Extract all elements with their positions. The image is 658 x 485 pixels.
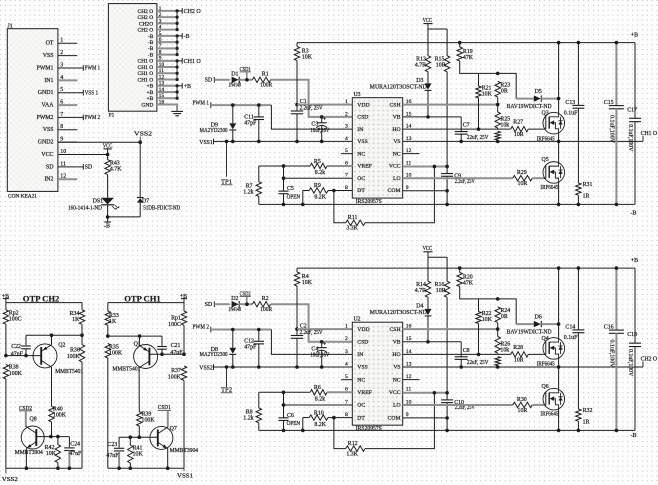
junction C23 bottom: [117, 466, 121, 470]
svg-text:7: 7: [159, 43, 162, 49]
svg-text:8.2K: 8.2K: [314, 195, 326, 201]
svg-text:CH1 O: CH1 O: [138, 77, 154, 83]
svg-text:+B: +B: [147, 96, 154, 102]
resistor R22 10K: [476, 299, 493, 354]
resistor R7 1.2k: [243, 166, 261, 204]
svg-text:R19: R19: [463, 49, 473, 55]
svg-text:CSH: CSH: [390, 102, 401, 108]
svg-text:BAV19WDICT-ND: BAV19WDICT-ND: [507, 329, 553, 335]
connector P1 pin 1 CH2 O: [138, 6, 178, 15]
wire LO row: [403, 177, 513, 179]
net label CSD1 (OTP): [158, 405, 171, 427]
svg-text:10R: 10R: [436, 63, 446, 69]
svg-text:VREF: VREF: [357, 390, 372, 396]
junction R41 bottom: [129, 466, 133, 470]
resistor gate pulldown: [495, 131, 500, 141]
svg-text:CH2 O: CH2 O: [184, 9, 202, 15]
svg-text:P1: P1: [109, 113, 115, 119]
svg-text:R29: R29: [517, 170, 527, 176]
junction COM/C9: [445, 416, 449, 420]
resistor R6 8.2k: [310, 385, 327, 402]
junction C1/VSS: [295, 365, 299, 369]
svg-text:100C: 100C: [9, 317, 22, 323]
capacitor C22 47nF: [11, 335, 31, 357]
wire P1 bus +B: [176, 84, 183, 100]
testpoint TP1: [221, 140, 232, 186]
svg-text:OPEN: OPEN: [287, 421, 301, 427]
svg-text:R31: R31: [583, 182, 593, 188]
svg-text:-B: -B: [148, 52, 154, 58]
wire VCC stub rail: [428, 28, 447, 30]
wire Q3 source to VS: [558, 133, 560, 141]
wire Q5 source to -B rail: [558, 183, 560, 205]
svg-text:Q6: Q6: [542, 384, 549, 390]
pin 1 VDD: [345, 99, 370, 108]
svg-text:Q4: Q4: [542, 336, 549, 342]
connector P1 pin 4 CH2 O: [138, 25, 178, 34]
net label SD at J1 pin 11: [77, 164, 93, 171]
power +B OTP CH1: [180, 294, 187, 303]
junction D3/VB: [426, 340, 430, 344]
junction R21/HO: [477, 127, 481, 131]
svg-text:8.2K: 8.2K: [314, 422, 326, 428]
svg-text:100K: 100K: [9, 371, 23, 377]
svg-text:10k: 10k: [500, 122, 509, 128]
junction R34/R36: [80, 333, 84, 337]
junction C15/-B: [615, 203, 619, 207]
svg-text:R20: R20: [463, 274, 473, 280]
svg-text:12: 12: [60, 174, 66, 180]
svg-text:IN1: IN1: [44, 78, 53, 84]
pin 5 NC stub: [341, 153, 352, 155]
svg-text:VDD: VDD: [357, 327, 369, 333]
svg-text:47nF: 47nF: [69, 451, 82, 457]
svg-text:D6: D6: [535, 315, 542, 321]
svg-text:PWM 1: PWM 1: [193, 100, 210, 106]
pin 9 COM: [388, 185, 409, 194]
junction Q5 source/-B: [557, 429, 561, 433]
svg-text:IRS20957S: IRS20957S: [356, 426, 382, 432]
junction Q8 emitter: [25, 466, 29, 470]
wire OC row: [284, 166, 353, 178]
svg-text:R11: R11: [348, 215, 358, 221]
wire VDD row: [297, 328, 352, 330]
resistor R21 10K: [476, 73, 493, 129]
pin 6 VREF: [345, 387, 372, 396]
svg-text:10R: 10R: [514, 357, 524, 363]
net label PWM 2: [193, 325, 211, 333]
pin 10 LO: [393, 399, 412, 408]
junction R23 top: [496, 297, 500, 301]
wire VS row: [403, 366, 643, 368]
junction C15/+B: [615, 41, 619, 45]
svg-text:PWM 1: PWM 1: [85, 66, 101, 72]
pin 14 HO: [392, 124, 411, 133]
svg-text:1: 1: [159, 6, 162, 12]
connector P1 pin 3 CH2O: [139, 18, 177, 27]
svg-text:0.1uF,100V: 0.1uF,100V: [608, 115, 614, 144]
svg-text:VSS2: VSS2: [199, 366, 213, 372]
resistor R26 10k: [495, 329, 510, 354]
pin 4 VSS: [345, 136, 368, 145]
svg-text:1N4148: 1N4148: [228, 83, 241, 89]
svg-text:CSD: CSD: [357, 339, 368, 345]
svg-text:IRF6645: IRF6645: [540, 412, 558, 418]
junction D5/drain: [557, 322, 561, 326]
svg-text:R1: R1: [262, 72, 269, 78]
svg-text:C3: C3: [311, 122, 318, 128]
svg-text:R6: R6: [314, 385, 321, 391]
pin 11 VCC: [389, 387, 412, 396]
svg-text:4: 4: [159, 25, 162, 31]
svg-text:C5: C5: [287, 186, 294, 192]
svg-text:10R: 10R: [518, 181, 528, 187]
connector J1 pin 3 PWM1: [36, 62, 77, 71]
pin 9 COM: [388, 412, 409, 421]
svg-text:10: 10: [60, 149, 66, 155]
wire CSH row: [403, 328, 498, 330]
wire HO row: [403, 128, 511, 130]
pin 12 NC stub: [403, 379, 420, 381]
svg-text:C7: C7: [463, 123, 470, 129]
connector J1: [7, 29, 58, 192]
svg-text:15: 15: [159, 93, 165, 99]
svg-text:PWM 2: PWM 2: [85, 115, 101, 121]
junction R19/+B: [458, 41, 462, 45]
connector J1 pin 4 IN1: [44, 75, 77, 84]
capacitor C3 10uF 16V: [310, 117, 330, 142]
svg-text:OTP CH1: OTP CH1: [124, 293, 161, 303]
thermistor Rp1 100C: [168, 303, 187, 355]
svg-text:BAV19WDICT-ND: BAV19WDICT-ND: [507, 104, 553, 110]
wire VB row: [403, 341, 462, 343]
svg-text:OC: OC: [357, 403, 365, 409]
svg-text:1.2k: 1.2k: [243, 416, 253, 422]
pin 8 DT: [345, 185, 365, 194]
svg-text:C15: C15: [604, 100, 614, 106]
svg-text:100K: 100K: [109, 351, 123, 357]
svg-text:-B: -B: [184, 34, 190, 40]
wire SD: [214, 79, 230, 81]
pin 6 VREF: [345, 160, 372, 169]
wire drain to +B: [558, 268, 560, 338]
svg-text:4.7R: 4.7R: [415, 63, 426, 69]
svg-text:Rp1: Rp1: [171, 316, 181, 322]
capacitor C2 2.2uF 25V: [291, 324, 323, 367]
capacitor C21 47nF: [157, 336, 183, 356]
svg-text:47pF: 47pF: [244, 120, 257, 126]
capacitor C9 2.2uF 25V: [441, 166, 475, 191]
transistor Q3 IRF6645 (high side): [537, 111, 565, 143]
svg-text:4: 4: [60, 75, 63, 81]
svg-text:-B: -B: [148, 40, 154, 46]
power +B OTP CH2: [2, 294, 9, 303]
svg-text:10K: 10K: [302, 55, 313, 61]
pin 8 DT: [345, 412, 365, 421]
wire P1 bus -B: [176, 34, 183, 56]
power -B rail: [259, 204, 637, 216]
wire Q5 drain to VS: [558, 141, 560, 162]
resistor R41 10K: [128, 437, 144, 468]
resistor R25 10k: [495, 105, 510, 130]
wire COM row: [403, 417, 447, 419]
pin 15 VB: [393, 111, 412, 120]
net label CH2 O: [182, 8, 201, 15]
connector J1 pin 12 IN2: [44, 174, 77, 183]
svg-text:Q5: Q5: [542, 157, 549, 163]
resistor R27 10R: [511, 120, 544, 138]
wire CSH row: [403, 104, 498, 106]
svg-text:VSS 1: VSS 1: [85, 90, 99, 96]
junction OC/C5: [282, 176, 286, 180]
resistor R35 100K: [105, 344, 123, 469]
resistor R2 100R: [252, 296, 272, 313]
svg-text:1.2k: 1.2k: [243, 189, 253, 195]
svg-text:PWM2: PWM2: [36, 115, 53, 121]
connector P1: [108, 4, 156, 112]
diode D2 1N4148: [228, 296, 241, 313]
svg-text:10uF,16V: 10uF,16V: [310, 128, 330, 134]
svg-text:Rp2: Rp2: [9, 310, 19, 316]
svg-text:IN: IN: [357, 352, 363, 358]
svg-text:R10: R10: [314, 410, 324, 416]
svg-text:C22: C22: [11, 344, 21, 350]
wire PWM to IN pin: [211, 105, 352, 129]
op-amp U2 IRS20957S: [352, 317, 402, 432]
svg-text:LO: LO: [393, 403, 401, 409]
resistor R29 10R: [513, 170, 544, 187]
svg-text:Q7: Q7: [170, 426, 177, 432]
svg-text:5: 5: [159, 31, 162, 37]
resistor R30 10R: [513, 397, 544, 414]
power +B rail: [297, 258, 638, 268]
svg-text:10uF,16V: 10uF,16V: [310, 353, 330, 359]
junction CSD1: [245, 78, 249, 82]
svg-text:1K: 1K: [109, 319, 117, 325]
svg-text:-B: -B: [631, 211, 637, 217]
svg-text:22uF, 25V: 22uF, 25V: [467, 360, 489, 366]
net label CSD2 (OTP): [19, 406, 32, 427]
wire Q1 emitter row: [108, 335, 162, 337]
svg-text:CSH: CSH: [390, 327, 401, 333]
resistor R33 1K: [105, 303, 119, 337]
pin 16 CSH: [390, 324, 412, 333]
svg-text:1R: 1R: [583, 194, 590, 200]
junction Q7 emitter: [166, 466, 170, 470]
pin 3 IN: [345, 124, 363, 133]
svg-text:Q2: Q2: [58, 343, 65, 349]
junction VCC/R11 return: [433, 391, 437, 395]
transistor Q1 MMBT5401: [112, 336, 157, 372]
svg-text:VS: VS: [393, 365, 400, 371]
net label VSS1: [199, 139, 213, 146]
junction C13/+B: [577, 266, 581, 270]
connector J1 pin 10 VCC: [41, 149, 77, 158]
wire VB row: [403, 116, 462, 118]
svg-text:11: 11: [60, 161, 66, 167]
resistor R31 1R: [576, 182, 593, 204]
svg-text:D1: D1: [231, 72, 238, 78]
svg-text:3: 3: [159, 18, 162, 24]
capacitor C5 OPEN: [279, 178, 301, 204]
pin 7 OC: [345, 173, 365, 182]
wire Q5 source to -B rail: [558, 409, 560, 430]
svg-text:13: 13: [159, 81, 165, 87]
junction VDD: [295, 327, 299, 331]
svg-text:100K: 100K: [142, 418, 156, 424]
connector J1 pin 1 OT: [46, 38, 78, 47]
svg-text:10K: 10K: [302, 280, 313, 286]
svg-text:VSS: VSS: [357, 365, 367, 371]
svg-text:D7: D7: [142, 198, 149, 204]
svg-text:14: 14: [159, 87, 165, 93]
diode D3 MURA120T3OSCT-ND: [370, 72, 432, 117]
svg-text:R38: R38: [9, 365, 19, 371]
svg-text:2: 2: [159, 12, 162, 18]
junction C9/-B rail: [445, 429, 449, 433]
connector P1 pin 12 CH1 O: [138, 74, 178, 83]
capacitor C12 47pF: [244, 330, 264, 368]
connector P1 pin 6 -B: [148, 37, 177, 46]
svg-text:Q3: Q3: [542, 111, 549, 117]
svg-text:VB: VB: [393, 339, 401, 345]
svg-text:8.2k: 8.2k: [315, 397, 325, 403]
junction VREF/C5 branch: [282, 164, 286, 168]
junction C3/VSS: [320, 140, 324, 144]
svg-text:100K: 100K: [67, 354, 81, 360]
resistor R43 4.7K: [105, 155, 122, 198]
svg-text:MURA120T3OSCT-ND: MURA120T3OSCT-ND: [370, 85, 428, 91]
svg-text:VSS: VSS: [43, 127, 54, 133]
ground: [171, 111, 183, 115]
svg-text:R2: R2: [262, 296, 269, 302]
wire R5 to VREF pin: [327, 165, 352, 167]
svg-text:U3: U3: [354, 92, 361, 98]
svg-text:-B: -B: [148, 46, 154, 52]
net label PWM 1: [193, 100, 211, 108]
svg-text:1R: 1R: [583, 420, 590, 426]
svg-text:-B: -B: [631, 433, 637, 439]
connector P1 pin 13 +B: [147, 81, 178, 90]
resistor R13 4.7R: [415, 29, 431, 72]
wire OTP CH2 top rail: [6, 302, 82, 304]
svg-text:NC: NC: [357, 151, 365, 157]
junction C15/-B: [615, 429, 619, 433]
resistor R14 4.7R: [415, 257, 431, 297]
junction CSH/R23: [496, 103, 500, 107]
pin 2 CSD: [345, 336, 368, 345]
svg-text:MA2YD2300: MA2YD2300: [200, 128, 228, 134]
capacitor C7 22uF 25V: [455, 117, 489, 142]
connector J1 pin 7 PWM2: [36, 112, 77, 121]
transistor Q5 IRF6645 (low side): [540, 157, 564, 191]
power VCC: [423, 246, 433, 257]
resistor R40 100K: [49, 367, 67, 437]
svg-text:R16: R16: [435, 282, 445, 288]
junction Q5 source/-B: [557, 203, 561, 207]
net label PWM 2 at J1 pin 7: [77, 115, 100, 122]
resistor R36 100K: [67, 335, 85, 468]
wire VSS row: [214, 366, 353, 368]
svg-text:C21: C21: [171, 343, 181, 349]
svg-text:1: 1: [345, 324, 348, 330]
diode D7 51DB-FDICT-ND: [137, 142, 181, 217]
power VCC: [423, 18, 433, 29]
svg-text:47nF: 47nF: [106, 453, 119, 459]
junction C input cap: [257, 328, 261, 332]
net label CSD2: [240, 291, 251, 304]
junction R42: [56, 435, 60, 439]
svg-text:10R: 10R: [436, 288, 446, 294]
junction VCC/C9: [445, 165, 449, 169]
svg-text:CH2 O: CH2 O: [138, 9, 154, 15]
wire Q1 base row: [149, 353, 184, 355]
svg-text:COM: COM: [388, 188, 401, 194]
resistor R24 0R: [495, 307, 510, 329]
junction DT: [332, 416, 336, 420]
svg-text:R35: R35: [109, 344, 119, 350]
svg-text:2: 2: [345, 336, 348, 342]
pin 13 VS: [393, 361, 411, 370]
connector P1 pin 10 CH1 O: [138, 62, 178, 71]
pin 5 NC: [345, 148, 365, 157]
svg-text:3: 3: [345, 349, 348, 355]
svg-text:HO: HO: [392, 352, 400, 358]
junction C7/VS: [459, 365, 463, 369]
net label -B: [182, 33, 189, 40]
svg-text:R27: R27: [513, 120, 523, 126]
svg-text:C24: C24: [70, 442, 80, 448]
svg-text:-B: -B: [148, 34, 154, 40]
wire VCC stub rail: [428, 256, 447, 258]
connector J1 pin 6 VAA: [41, 99, 77, 108]
junction Rp2/R38: [4, 354, 8, 358]
svg-text:10K: 10K: [133, 451, 144, 457]
svg-text:C14: C14: [565, 325, 575, 331]
connector P1 pin 9 CH1 O: [138, 56, 178, 65]
junction C11/VSS: [257, 365, 261, 369]
svg-text:SD: SD: [205, 78, 213, 84]
junction drain/+B: [557, 266, 561, 270]
junction OC/C5: [282, 403, 286, 407]
svg-text:R28: R28: [513, 345, 523, 351]
svg-text:9: 9: [406, 185, 409, 191]
wire diode to R: [239, 79, 252, 81]
svg-text:R40: R40: [53, 406, 63, 412]
svg-text:R12: R12: [348, 441, 358, 447]
net label CH1 O: [641, 131, 658, 141]
svg-text:IN: IN: [357, 127, 363, 133]
junction R7/-B rail: [282, 429, 286, 433]
diode D1 1N4148: [228, 72, 241, 89]
svg-text:CH1 O: CH1 O: [641, 131, 658, 137]
wire VREF row: [259, 165, 310, 167]
net label CH2 O: [641, 357, 658, 367]
svg-text:OC: OC: [357, 176, 365, 182]
junction VCC / R43: [106, 153, 110, 157]
svg-text:OT: OT: [46, 41, 54, 47]
svg-text:DT: DT: [357, 415, 365, 421]
svg-text:10K: 10K: [482, 91, 493, 97]
svg-text:9: 9: [60, 137, 63, 143]
net label VSS2: [199, 364, 213, 371]
resistor R42 10K: [45, 437, 61, 469]
svg-text:3: 3: [60, 62, 63, 68]
svg-text:C13: C13: [565, 100, 575, 106]
svg-text:R32: R32: [583, 408, 593, 414]
svg-text:C1: C1: [300, 99, 307, 105]
svg-text:+B: +B: [184, 84, 191, 90]
